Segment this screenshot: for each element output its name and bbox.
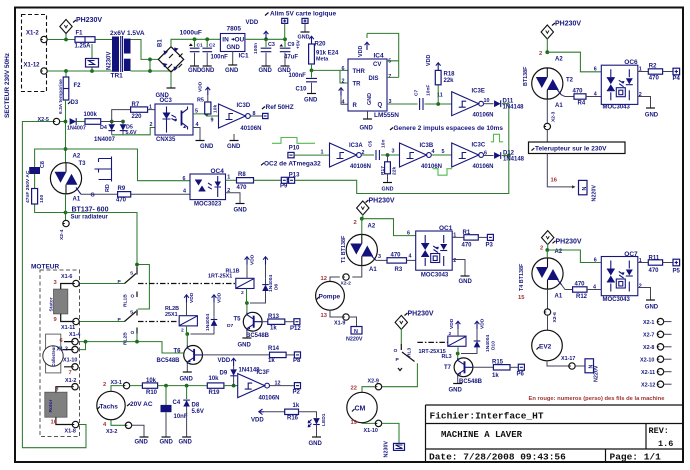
wire IC3D out — [250, 115, 262, 117]
svg-text:GND: GND — [459, 279, 473, 285]
svg-text:D8: D8 — [192, 403, 200, 409]
diode D8 zener 5.6V — [179, 386, 204, 446]
wire to telerupteur — [546, 130, 548, 142]
svg-text:X3-2: X3-2 — [106, 429, 117, 435]
svg-text:1.25A: 1.25A — [75, 44, 92, 50]
label OC2 de ATmega32 — [261, 160, 321, 167]
wire X1-11 to RL2 — [79, 321, 124, 323]
svg-text:R7: R7 — [132, 102, 140, 108]
wire neutral — [48, 70, 113, 72]
svg-text:A2: A2 — [73, 154, 81, 160]
wire RL3 to X2-9 — [382, 363, 417, 387]
svg-text:1: 1 — [149, 105, 152, 111]
wire gate T4 — [562, 285, 573, 290]
svg-text:2: 2 — [354, 220, 357, 226]
svg-text:R16: R16 — [287, 416, 299, 422]
transistor T7 BC548B — [444, 358, 483, 385]
svg-text:5: 5 — [442, 149, 445, 155]
connector P5 — [673, 259, 681, 274]
svg-text:OC2 de ATmega32: OC2 de ATmega32 — [264, 160, 321, 167]
label box Telerupteur — [529, 142, 626, 154]
wire 555 top loop — [367, 33, 399, 77]
optocoupler OC4 MOC3023 — [183, 168, 231, 208]
svg-text:IC1: IC1 — [239, 53, 250, 60]
resistor R21 100 — [32, 189, 45, 205]
svg-text:O: O — [131, 294, 135, 300]
power symbol PH230V CM — [395, 311, 434, 345]
svg-text:10: 10 — [51, 420, 57, 426]
power VDD RL1 — [245, 254, 256, 278]
wire OC1 pin2 gnd — [452, 260, 472, 285]
wire A2 to OC1 pin6 — [362, 219, 416, 237]
svg-text:2x6V 1.5VA: 2x6V 1.5VA — [110, 30, 145, 37]
wire R9 to OC4 pin4 — [131, 193, 190, 195]
svg-text:P4: P4 — [673, 76, 681, 82]
svg-text:X1-2: X1-2 — [26, 31, 39, 37]
svg-text:B1: B1 — [158, 39, 164, 47]
connector P3 — [486, 234, 494, 248]
label Alim 5V — [265, 11, 336, 18]
svg-text:Fichier:Interface_HT: Fichier:Interface_HT — [430, 411, 544, 422]
power symbol PH230V EV2 — [542, 231, 582, 250]
inverter IC3B — [400, 143, 445, 170]
node C7 R18 — [436, 92, 442, 106]
wire T6 base R14 — [203, 354, 270, 356]
pin X2-10 — [640, 356, 672, 364]
svg-text:10k: 10k — [146, 378, 157, 384]
svg-text:X2-1: X2-1 — [643, 320, 654, 326]
pin X1-10 — [351, 420, 382, 434]
svg-text:X2-6: X2-6 — [552, 312, 558, 323]
svg-text:22k: 22k — [392, 167, 398, 175]
svg-text:R1: R1 — [463, 230, 471, 236]
svg-text:220: 220 — [132, 114, 143, 120]
svg-text:GND: GND — [304, 98, 318, 104]
svg-text:GND: GND — [449, 388, 463, 394]
svg-text:BC548B: BC548B — [157, 358, 181, 364]
svg-text:X1-3: X1-3 — [57, 347, 68, 353]
svg-text:C8: C8 — [40, 161, 46, 168]
node neutral junctions — [64, 69, 94, 73]
power symbol PH230V pompe — [357, 198, 395, 219]
svg-text:N230V: N230V — [384, 441, 390, 458]
svg-text:2: 2 — [241, 290, 244, 296]
ground T7 — [449, 377, 463, 394]
resistor R9 470 — [116, 186, 131, 204]
svg-text:T7: T7 — [444, 365, 452, 371]
svg-text:D7: D7 — [227, 323, 234, 329]
wire 555 reset VDD — [339, 88, 348, 105]
wire secondary — [131, 40, 172, 73]
wire CM to X1-10 — [362, 422, 375, 425]
pin X1-12 — [24, 63, 48, 75]
node phase junction — [64, 38, 68, 42]
svg-text:10k: 10k — [209, 376, 220, 382]
svg-text:100n: 100n — [253, 43, 259, 54]
svg-text:IC3D: IC3D — [237, 103, 251, 109]
connector P4 — [673, 68, 681, 82]
wire X3-2 gnd — [132, 425, 149, 445]
neutral N220V EV2 — [585, 359, 600, 382]
node IC3F input — [232, 384, 236, 388]
svg-text:40106N: 40106N — [350, 164, 371, 170]
svg-text:X2-11: X2-11 — [641, 370, 655, 376]
wire T3 A1 to relay common — [66, 213, 150, 310]
power VDD 555 — [358, 33, 369, 57]
svg-text:Stator: Stator — [49, 297, 55, 311]
pin X3-2 — [103, 422, 132, 435]
ground bridge — [156, 72, 176, 99]
capacitor C1 1000uF — [180, 30, 204, 75]
wire X1-6 to RL1 — [79, 283, 124, 285]
svg-text:RL1B: RL1B — [123, 294, 129, 307]
svg-text:X1-4: X1-4 — [69, 332, 80, 338]
wire A2 stub T1 — [361, 219, 363, 235]
svg-text:4: 4 — [594, 91, 597, 97]
svg-text:1N4007: 1N4007 — [67, 125, 86, 131]
svg-text:3: 3 — [392, 148, 395, 154]
svg-text:22k: 22k — [444, 78, 455, 84]
wire tach row — [158, 384, 208, 388]
wire left return net — [22, 122, 86, 448]
varistor Z — [86, 44, 99, 71]
svg-text:+5V: +5V — [296, 39, 302, 49]
svg-text:IC3E: IC3E — [472, 89, 485, 95]
svg-text:R11: R11 — [649, 255, 660, 261]
transformer TR1 — [107, 30, 145, 80]
connector P6 — [517, 364, 525, 377]
svg-text:GND: GND — [227, 45, 241, 51]
heater element — [95, 157, 112, 182]
svg-text:IC3F: IC3F — [257, 370, 270, 376]
svg-text:P13: P13 — [289, 172, 300, 178]
pin X2-9 — [351, 379, 382, 392]
node C5 R17 — [386, 148, 395, 157]
svg-text:T2: T2 — [566, 78, 574, 84]
svg-text:3: 3 — [378, 254, 381, 260]
svg-text:D3: D3 — [71, 100, 79, 106]
pin X2-1 — [643, 318, 672, 326]
pin X2-8 — [643, 344, 672, 352]
svg-text:P9: P9 — [280, 183, 288, 189]
svg-text:RL3: RL3 — [407, 347, 413, 357]
svg-text:N220V: N220V — [594, 365, 600, 382]
neutral N220V pompe — [346, 327, 363, 343]
diode D5 zener 5.6V — [120, 122, 137, 137]
svg-text:Date: 7/28/2008 09:43:56: Date: 7/28/2008 09:43:56 — [429, 452, 566, 463]
svg-text:R14: R14 — [268, 346, 280, 352]
svg-text:REV:: REV: — [649, 426, 669, 436]
svg-text:VDD: VDD — [449, 318, 455, 329]
svg-text:47uF: 47uF — [284, 55, 298, 61]
svg-text:VDD: VDD — [246, 20, 259, 26]
resistor R18 22k — [426, 55, 455, 104]
svg-text:GND: GND — [201, 68, 215, 74]
svg-text:R18: R18 — [444, 72, 456, 78]
svg-text:470: 470 — [116, 198, 127, 204]
capacitor C9 47uF — [278, 39, 302, 74]
svg-text:RL3: RL3 — [442, 354, 452, 360]
capacitor C3 100n — [253, 39, 275, 74]
node D4 / node D5 — [110, 120, 125, 124]
resistor R2 470 — [638, 63, 673, 81]
capacitor C8 47nF — [25, 161, 46, 203]
svg-text:MOTEUR: MOTEUR — [31, 263, 59, 270]
node A2 T4 — [540, 245, 563, 255]
svg-text:OC1: OC1 — [439, 225, 453, 232]
svg-text:15: 15 — [518, 295, 525, 301]
waveform pulse1 — [272, 138, 315, 144]
svg-text:2: 2 — [639, 284, 642, 290]
pin X2-5 — [38, 117, 60, 125]
svg-text:20V AC: 20V AC — [130, 401, 153, 408]
neutral N230V — [384, 441, 405, 458]
diode D7 1N4004 — [191, 292, 234, 334]
svg-text:D4: D4 — [100, 125, 107, 131]
svg-text:4: 4 — [183, 188, 186, 194]
wire IC3E out — [484, 103, 494, 105]
svg-text:T3: T3 — [79, 161, 87, 167]
power VDD arrow — [246, 20, 269, 39]
svg-text:LED1: LED1 — [321, 413, 327, 426]
connector P12 — [290, 319, 301, 332]
svg-text:D9: D9 — [220, 370, 228, 376]
wire tach bottom — [111, 420, 125, 426]
svg-text:A2: A2 — [368, 223, 376, 229]
motor Pompe — [316, 281, 345, 310]
svg-text:GND: GND — [179, 440, 193, 446]
svg-text:40106N: 40106N — [473, 113, 494, 119]
svg-text:BC548B: BC548B — [459, 379, 483, 385]
svg-text:X2-7: X2-7 — [643, 333, 654, 339]
svg-text:1k: 1k — [492, 373, 499, 379]
svg-text:PH230V: PH230V — [555, 20, 581, 27]
svg-text:R12: R12 — [576, 294, 588, 300]
relay coil RL2 — [165, 306, 197, 334]
connector P8 — [293, 352, 301, 364]
svg-text:GND: GND — [200, 144, 214, 150]
svg-text:F1: F1 — [76, 31, 84, 37]
svg-text:N: N — [582, 187, 588, 191]
inverter IC3C — [452, 143, 494, 170]
svg-text:EV2: EV2 — [539, 344, 552, 351]
resistor R17 22k — [380, 155, 398, 193]
svg-text:IC4: IC4 — [374, 53, 385, 60]
pin X1-6 — [54, 274, 80, 287]
capacitor C10 100nF — [289, 70, 319, 103]
svg-text:X1-10: X1-10 — [364, 428, 378, 434]
svg-text:Sur radiateur: Sur radiateur — [71, 214, 109, 220]
svg-text:22: 22 — [351, 385, 357, 391]
svg-text:X2-8: X2-8 — [643, 345, 654, 351]
svg-text:Meta: Meta — [316, 57, 329, 63]
resistor R5 10k — [197, 81, 219, 114]
svg-text:X2-9: X2-9 — [368, 379, 379, 385]
svg-text:VDD: VDD — [251, 417, 264, 423]
wire X2-6 to EV2 — [547, 315, 549, 330]
resistor R11 470 — [638, 255, 673, 274]
svg-text:MOC3043: MOC3043 — [603, 297, 631, 303]
svg-text:2: 2 — [540, 245, 543, 251]
wire pompe to X1-9 — [330, 310, 343, 317]
svg-text:470: 470 — [391, 253, 402, 259]
ground 555 — [360, 111, 374, 132]
svg-text:100nF: 100nF — [289, 73, 307, 79]
svg-text:GND: GND — [298, 35, 310, 41]
svg-text:OC6: OC6 — [624, 59, 638, 66]
svg-text:6: 6 — [407, 231, 410, 237]
pin X3-1 — [103, 380, 130, 389]
svg-text:GND: GND — [234, 208, 248, 214]
svg-text:1k: 1k — [268, 358, 275, 364]
svg-text:PH230V: PH230V — [556, 238, 582, 245]
svg-text:P5: P5 — [673, 268, 681, 274]
resistor R15 1k — [492, 360, 518, 379]
timer IC4 LM555N — [342, 53, 400, 120]
pin X1-11 — [54, 317, 80, 331]
svg-text:6: 6 — [183, 176, 186, 182]
power symbol PH230V — [60, 17, 103, 34]
svg-text:LM555N: LM555N — [374, 112, 399, 119]
pin X2-12 — [641, 381, 672, 389]
svg-text:X1-2: X1-2 — [65, 378, 76, 384]
node R20 C10 — [310, 69, 348, 73]
wire X1-1 to N220V — [575, 365, 585, 367]
svg-text:IC3B: IC3B — [420, 143, 434, 149]
svg-text:C3: C3 — [268, 42, 275, 48]
svg-text:VDD: VDD — [426, 55, 432, 66]
svg-text:D12: D12 — [503, 150, 515, 156]
wire OC7 pin2 gnd — [638, 288, 659, 311]
svg-text:16: 16 — [551, 177, 558, 183]
wire A1 T4 — [547, 289, 549, 309]
capacitor C2 100nF — [201, 39, 228, 74]
connector P13 / P9 — [280, 172, 300, 189]
svg-text:2: 2 — [453, 258, 456, 264]
svg-text:1N4004: 1N4004 — [268, 275, 274, 292]
svg-text:X1-8: X1-8 — [65, 428, 76, 434]
svg-text:T5: T5 — [234, 316, 242, 322]
svg-text:P12: P12 — [290, 326, 301, 332]
inverter IC3F — [238, 370, 281, 401]
wire telerupteur to N220V — [547, 154, 575, 189]
svg-text:R3: R3 — [395, 267, 403, 273]
svg-text:RD: RD — [105, 184, 111, 192]
svg-text:4: 4 — [409, 254, 412, 260]
transistor T5 BC548B — [234, 312, 270, 339]
svg-text:GND: GND — [160, 440, 174, 446]
svg-text:6.3A temporise: 6.3A temporise — [58, 79, 64, 114]
resistor R8 470 — [237, 172, 254, 191]
svg-text:Q: Q — [378, 103, 383, 109]
node D3 — [64, 120, 68, 124]
svg-text:19: 19 — [351, 420, 358, 426]
relay contact RL1 — [118, 267, 138, 308]
waveform pulse3 — [491, 134, 503, 142]
svg-text:A1: A1 — [555, 103, 563, 109]
svg-text:5: 5 — [388, 59, 391, 65]
link RL3 dashdot — [417, 341, 447, 343]
relay coil RL1 — [208, 269, 254, 296]
svg-text:P3: P3 — [486, 242, 494, 248]
wire P10 to IC3A — [294, 154, 329, 156]
svg-text:OC4: OC4 — [211, 168, 225, 175]
svg-text:X2-3: X2-3 — [551, 111, 557, 122]
svg-text:1N4007: 1N4007 — [94, 137, 116, 143]
collecteur — [43, 334, 72, 373]
pin X1-4 — [60, 332, 81, 345]
node A2 T1 — [354, 217, 364, 226]
svg-text:MOC3043: MOC3043 — [603, 105, 631, 111]
svg-text:6: 6 — [342, 66, 345, 72]
svg-text:O: O — [131, 330, 135, 336]
connector P1 5V — [282, 18, 288, 39]
svg-text:X2-2: X2-2 — [341, 280, 352, 286]
svg-text:MOC3043: MOC3043 — [421, 272, 449, 278]
wire X1-10 to N230V — [382, 423, 399, 443]
power symbol PH230V telerupteur — [541, 20, 581, 52]
svg-text:DIS: DIS — [369, 76, 379, 82]
svg-text:X2-10: X2-10 — [640, 358, 654, 364]
svg-text:En rouge: numeros (perso) des: En rouge: numeros (perso) des fils de la… — [529, 396, 666, 402]
wire gate drive loop P13 to D11 D12 — [295, 104, 511, 194]
triac T3 BT137 — [50, 154, 86, 203]
diode D3 1N4007 — [67, 100, 86, 131]
diode D9 1N4148 — [218, 358, 261, 386]
svg-text:VDD: VDD — [198, 81, 204, 92]
pin X1-9 — [334, 314, 349, 327]
wire tach top — [111, 386, 142, 392]
svg-text:100k: 100k — [84, 112, 98, 118]
wire X1-4 net to T6 — [79, 334, 184, 354]
title block — [426, 405, 683, 463]
svg-text:R15: R15 — [492, 360, 504, 366]
svg-text:1k: 1k — [270, 325, 277, 331]
svg-text:N: N — [354, 329, 358, 335]
svg-text:40106N: 40106N — [473, 164, 494, 170]
svg-text:P8: P8 — [293, 358, 301, 364]
pin X2-3 — [544, 111, 556, 129]
svg-text:10: 10 — [484, 98, 490, 104]
svg-text:N230V: N230V — [107, 52, 113, 70]
svg-text:2: 2 — [150, 122, 153, 128]
inverter IC3D — [211, 103, 262, 132]
svg-text:VDD: VDD — [250, 254, 256, 265]
svg-text:1N4148: 1N4148 — [503, 157, 525, 163]
wire IC3C out — [484, 155, 494, 157]
resistor R3 470 — [378, 253, 416, 273]
svg-text:9: 9 — [211, 118, 214, 124]
svg-text:Ref 50HZ: Ref 50HZ — [266, 104, 294, 111]
svg-text:2: 2 — [181, 328, 184, 334]
inverter IC3E — [452, 89, 494, 119]
wire phase 230V — [48, 33, 113, 40]
svg-text:1N4004: 1N4004 — [205, 314, 211, 331]
svg-text:1N4004: 1N4004 — [485, 335, 491, 352]
pin X1-8 — [51, 420, 79, 435]
svg-text:R8: R8 — [238, 172, 246, 178]
resistor R14 1k — [268, 346, 294, 364]
optocoupler OC3 CNX35 — [155, 104, 193, 143]
svg-text:6: 6 — [594, 67, 597, 73]
svg-text:10k: 10k — [213, 105, 219, 113]
wire OC4 pin1 — [226, 179, 237, 181]
svg-text:47nF 250V AC: 47nF 250V AC — [25, 170, 31, 203]
label Genere 2 impuls — [390, 125, 503, 132]
svg-text:C1: C1 — [197, 43, 204, 49]
power VDD RL3 — [449, 318, 460, 336]
svg-text:Genere 2 impuls espacees de 10: Genere 2 impuls espacees de 10ms — [394, 125, 504, 132]
